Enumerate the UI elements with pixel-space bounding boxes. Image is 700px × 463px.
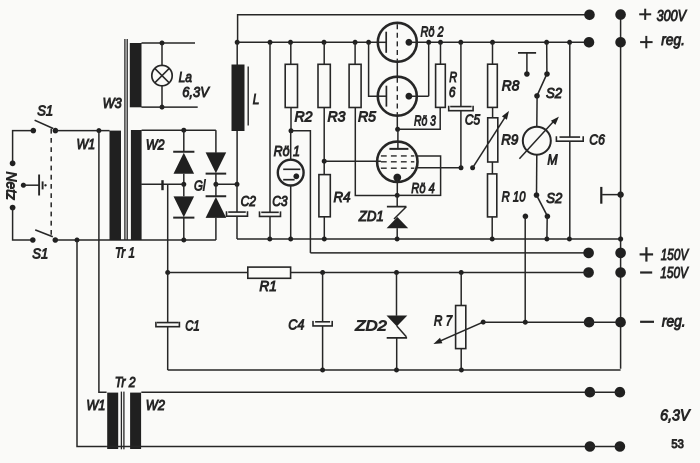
wire 6.3V rail top bbox=[141, 391, 590, 393]
node C6 bottom bbox=[567, 237, 572, 242]
node C6 rail junction bbox=[567, 40, 572, 45]
node Roe3-R6-Roe4 junction bbox=[395, 127, 400, 132]
node S2 throw to -reg bbox=[523, 320, 528, 325]
wire R10 bottom bbox=[491, 217, 493, 239]
panel line bbox=[620, 15, 622, 369]
pot R9 wiper arrow bbox=[473, 111, 509, 168]
label +150V bbox=[640, 245, 690, 263]
label Roe2 bbox=[421, 23, 445, 40]
wire W3 bottom bbox=[142, 106, 198, 108]
label C2 bbox=[241, 193, 257, 210]
node Roe3 grid rail junction bbox=[366, 40, 371, 45]
wire rail +150V bbox=[310, 252, 588, 254]
node R5 rail junction bbox=[353, 40, 358, 45]
label C5 bbox=[465, 111, 481, 128]
wire L bottom bbox=[236, 131, 238, 184]
switch S2 bottom left throw bbox=[523, 214, 529, 220]
S1 coupling dashed line bbox=[50, 129, 52, 237]
node R2 bottom junction bbox=[289, 128, 294, 133]
switch S1 upper lever bbox=[35, 120, 54, 128]
wire W2 top to bridge bbox=[142, 129, 216, 131]
node common rail panel bbox=[618, 236, 623, 241]
diode Gl top-right bbox=[206, 152, 227, 184]
label ZD1 bbox=[358, 207, 384, 224]
node L top junction bbox=[235, 40, 240, 45]
svg-text:R1: R1 bbox=[259, 279, 276, 296]
wire S2 left throw down bbox=[524, 216, 526, 322]
switch S1 lower lever bbox=[35, 230, 53, 237]
switch S1 lower contact left bbox=[30, 237, 36, 243]
terminal stub above S2 bbox=[518, 53, 536, 77]
label W2 Tr2 bbox=[146, 396, 165, 413]
node W1 top junction bbox=[96, 128, 101, 133]
wire Tr2 primary bottom feed bbox=[77, 240, 107, 447]
resistor R8 bbox=[488, 64, 498, 107]
resistor R2 bbox=[285, 64, 297, 107]
switch S1 lower contact right bbox=[53, 237, 59, 243]
wire Roe3 anode up bbox=[428, 42, 430, 96]
switch S2 bottom contact upper bbox=[534, 192, 540, 198]
svg-text:Netz: Netz bbox=[2, 172, 19, 201]
svg-text:M: M bbox=[547, 151, 558, 167]
wire Roe4 screen loop bbox=[397, 156, 440, 195]
terminal -reg bbox=[584, 317, 626, 328]
label S2 top bbox=[546, 84, 562, 101]
label R3 bbox=[328, 109, 346, 125]
svg-text:C1: C1 bbox=[185, 317, 199, 334]
terminal 6.3V bottom bbox=[585, 441, 626, 452]
resistor R9 bbox=[488, 118, 498, 162]
svg-text:R 10: R 10 bbox=[502, 188, 526, 205]
wire Roe4 anode side bbox=[417, 167, 461, 169]
node R7 wiper bbox=[481, 320, 486, 325]
diode Gl top-left bbox=[173, 152, 194, 185]
label R7 bbox=[434, 312, 453, 329]
node lamp bottom bbox=[160, 105, 165, 110]
zener ZD2 bbox=[387, 273, 408, 371]
node R2 rail junction bbox=[288, 40, 293, 45]
tube Roe4 cathode bbox=[393, 174, 401, 196]
wire R7 bottom bbox=[460, 349, 462, 370]
wire R9-R10 link bbox=[491, 162, 493, 174]
label Roe4 bbox=[411, 179, 434, 196]
svg-text:C2: C2 bbox=[241, 193, 257, 210]
tube Roe1 bbox=[278, 160, 304, 186]
label R2 bbox=[295, 109, 313, 125]
svg-text:Rö 3: Rö 3 bbox=[414, 111, 437, 128]
svg-text:C6: C6 bbox=[589, 131, 605, 147]
node C5 bottom junction bbox=[459, 165, 464, 170]
label -reg bbox=[640, 312, 685, 330]
wire R4 bottom bbox=[323, 217, 325, 239]
node R8 rail junction bbox=[490, 40, 495, 45]
svg-text:W1: W1 bbox=[86, 396, 105, 413]
wire S2 bottom to rail bbox=[546, 216, 548, 239]
mains plug symbol bbox=[21, 175, 47, 196]
lamp La bbox=[152, 65, 172, 85]
svg-text:C3: C3 bbox=[272, 193, 288, 210]
label Gl bbox=[194, 177, 206, 194]
label W1 Tr2 bbox=[86, 396, 105, 413]
svg-text:W1: W1 bbox=[77, 136, 96, 152]
label S2 bottom bbox=[546, 189, 562, 206]
label M bbox=[547, 151, 558, 167]
svg-text:ZD1: ZD1 bbox=[358, 207, 384, 224]
node R6 rail junction bbox=[438, 40, 443, 45]
tube Roe4 anode bbox=[389, 129, 408, 149]
label C1 bbox=[185, 317, 199, 334]
svg-text:C5: C5 bbox=[465, 111, 481, 128]
wire Roe1 bottom bbox=[290, 186, 292, 240]
wire rail +raw bbox=[237, 41, 378, 43]
label Roe1 bbox=[274, 143, 300, 159]
wire R6 stem bbox=[440, 42, 442, 64]
svg-text:W2: W2 bbox=[146, 136, 165, 152]
wire lamp stem top bbox=[161, 43, 163, 66]
svg-text:ZD2: ZD2 bbox=[354, 318, 387, 334]
capacitor C3 bbox=[260, 42, 281, 239]
wire Roe3 grid bbox=[369, 42, 378, 96]
node R3 rail junction bbox=[322, 40, 327, 45]
tube Roe4 grids dashed bbox=[381, 156, 414, 168]
node Roe4 cathode junction bbox=[395, 193, 400, 198]
svg-text:W3: W3 bbox=[103, 94, 122, 111]
transformer Tr1 winding W3 bbox=[130, 43, 142, 107]
label W2 bbox=[146, 136, 165, 152]
svg-text:6: 6 bbox=[449, 84, 456, 101]
label W1 bbox=[77, 136, 96, 152]
wire S1 to W1 top bbox=[55, 130, 109, 132]
svg-text:R5: R5 bbox=[358, 109, 377, 125]
node ZD2 top bbox=[394, 270, 399, 275]
svg-text:6,3V: 6,3V bbox=[182, 83, 210, 100]
terminal 6.3V top bbox=[585, 387, 626, 398]
wire R7 stem bbox=[460, 273, 462, 306]
label Tr1 bbox=[115, 244, 135, 261]
node C2 top junction bbox=[235, 182, 240, 187]
svg-text:R 7: R 7 bbox=[434, 312, 453, 329]
switch S2 top lever bbox=[538, 75, 547, 94]
tube Roe3 anode bbox=[406, 93, 429, 100]
svg-text:150V: 150V bbox=[660, 263, 689, 281]
switch S2 bottom lever bbox=[537, 197, 546, 215]
wire R3 stem bbox=[323, 42, 325, 64]
capacitor C1 bbox=[156, 273, 180, 371]
diode Gl bottom-right bbox=[206, 184, 227, 240]
label Netz bbox=[2, 172, 19, 201]
wire rail +reg bbox=[417, 41, 589, 43]
svg-text:S1: S1 bbox=[32, 245, 48, 262]
svg-text:R2: R2 bbox=[295, 109, 313, 125]
node R3-R4 junction bbox=[322, 159, 327, 164]
switch S1 upper contact right bbox=[53, 128, 59, 134]
tap terminal bar bbox=[161, 180, 163, 190]
wire R5 bottom bbox=[355, 108, 397, 196]
capacitor C5 bbox=[449, 42, 473, 168]
svg-text:R9: R9 bbox=[501, 132, 518, 149]
wire bridge mid-right to C2 bbox=[216, 183, 237, 185]
label +reg bbox=[640, 32, 685, 49]
wire W3 top bbox=[142, 42, 196, 44]
pot R7 wiper arrow bbox=[433, 322, 483, 344]
svg-text:S1: S1 bbox=[37, 102, 53, 119]
wire R2 bottom bbox=[290, 108, 292, 131]
node ZD2 bottom bbox=[394, 368, 399, 373]
node mains rail to Tr2 bbox=[75, 238, 80, 243]
switch S2 top contact lower bbox=[534, 93, 540, 99]
zener ZD1 bbox=[387, 195, 409, 239]
terminal +300V bbox=[584, 9, 626, 20]
wire bridge right column top bbox=[215, 130, 217, 152]
label R8 bbox=[502, 78, 520, 95]
label R10 bbox=[502, 188, 526, 205]
svg-text:150V: 150V bbox=[661, 245, 690, 263]
node C4 bottom bbox=[320, 368, 325, 373]
node R7 top bbox=[459, 270, 464, 275]
wire S2 to meter bbox=[536, 96, 538, 127]
node bridge mid-left bbox=[181, 182, 186, 187]
wire rail E bbox=[168, 369, 621, 371]
svg-text:Tr 2: Tr 2 bbox=[115, 374, 136, 390]
svg-text:Rö 4: Rö 4 bbox=[411, 179, 434, 196]
tube Roe2 envelope bbox=[378, 23, 417, 62]
svg-text:R4: R4 bbox=[334, 189, 351, 206]
terminal +150V bbox=[583, 248, 626, 259]
diode Gl bottom-left bbox=[173, 184, 194, 240]
svg-text:reg.: reg. bbox=[661, 32, 685, 49]
wire Roe3 bottom bbox=[396, 114, 398, 129]
node lamp top bbox=[160, 41, 165, 46]
capacitor C4 bbox=[313, 273, 332, 371]
svg-text:S2: S2 bbox=[546, 84, 562, 101]
transformer Tr2 winding W2 bbox=[130, 393, 141, 449]
label R4 bbox=[334, 189, 351, 206]
wire common rail bbox=[237, 238, 621, 240]
label Roe3 bbox=[414, 111, 437, 128]
tube Roe3 envelope bbox=[378, 77, 417, 116]
node S2 bottom rail bbox=[544, 237, 549, 242]
svg-text:6,3V: 6,3V bbox=[660, 407, 691, 425]
label C6 bbox=[589, 131, 605, 147]
node Netz terminal upper bbox=[10, 160, 16, 166]
resistor R1 bbox=[248, 267, 291, 278]
wire mains lower-left bbox=[13, 208, 33, 240]
resistor R3 bbox=[318, 64, 330, 107]
node C3 rail junction bbox=[268, 40, 273, 45]
svg-text:300V: 300V bbox=[657, 8, 688, 26]
node R9 wiper junction bbox=[470, 165, 475, 170]
wire junction to R6 bbox=[398, 107, 441, 129]
transformer Tr1 winding W2 bbox=[131, 130, 142, 240]
node C4 top bbox=[320, 270, 325, 275]
node ZD1 bottom bbox=[395, 237, 400, 242]
wire W2 tap to bridge bbox=[142, 183, 184, 185]
label R6 bbox=[449, 68, 458, 100]
node bridge mid-right bbox=[213, 182, 218, 187]
label 6,3V lamp bbox=[182, 83, 210, 100]
wire rail D left bbox=[168, 272, 248, 274]
label 6,3V output bbox=[660, 407, 691, 425]
wire bridge top-left lead bbox=[183, 130, 185, 151]
switch S1 upper contact left bbox=[31, 128, 37, 134]
wire 6.3V rail bottom bbox=[107, 446, 590, 448]
wire tap down to rail D bbox=[167, 185, 169, 273]
node R7 bottom bbox=[459, 368, 464, 373]
node bridge bottom-left bbox=[181, 238, 186, 243]
resistor R7 bbox=[456, 306, 466, 349]
svg-text:L: L bbox=[253, 90, 260, 107]
node Roe3 anode rail bbox=[426, 40, 431, 45]
svg-text:R3: R3 bbox=[328, 109, 346, 125]
node C5 rail junction bbox=[458, 40, 463, 45]
label S1 upper bbox=[37, 102, 53, 119]
node Netz terminal lower bbox=[10, 205, 16, 211]
label L bbox=[253, 90, 260, 107]
label +300V bbox=[639, 8, 687, 26]
transformer Tr1 winding W1 bbox=[110, 131, 122, 240]
transformer Tr2 core bbox=[121, 392, 124, 450]
wire Roe1 top bbox=[290, 131, 292, 160]
wire R2 stem bbox=[290, 42, 292, 64]
node R4 bottom bbox=[322, 237, 327, 242]
svg-text:53: 53 bbox=[671, 439, 683, 451]
wire top rail +300V bbox=[238, 15, 590, 43]
label La bbox=[179, 69, 193, 86]
wire R3 bottom bbox=[323, 108, 325, 175]
wire R8-R9 link bbox=[492, 107, 494, 117]
wire -reg rail bbox=[483, 321, 589, 323]
node Roe1 bottom bbox=[288, 237, 293, 242]
transformer Tr2 winding W1 bbox=[107, 393, 118, 449]
tube Roe4 envelope bbox=[377, 142, 417, 182]
capacitor C6 bbox=[556, 42, 583, 239]
svg-text:S2: S2 bbox=[546, 189, 562, 206]
svg-text:W2: W2 bbox=[146, 396, 165, 413]
wire R5 stem bbox=[354, 42, 356, 64]
capacitor C2 bbox=[227, 184, 248, 239]
tube Roe2 grid bbox=[378, 32, 386, 53]
wire mains upper-left bbox=[13, 131, 34, 164]
tube Roe2 cathode dashed bbox=[396, 24, 398, 60]
svg-text:reg.: reg. bbox=[662, 312, 686, 330]
label C3 bbox=[272, 193, 288, 210]
svg-text:C4: C4 bbox=[288, 315, 304, 332]
label R9 bbox=[501, 132, 518, 149]
svg-text:Rö 2: Rö 2 bbox=[421, 23, 445, 40]
label ZD2 bbox=[354, 318, 387, 334]
resistor R6 bbox=[436, 64, 446, 107]
tube Roe3 grid bbox=[378, 86, 386, 107]
wire rail D right bbox=[291, 272, 589, 274]
wire mains rail bottom bbox=[55, 239, 216, 241]
meter M bbox=[519, 117, 559, 159]
node R10 bottom bbox=[490, 237, 495, 242]
tube Roe2 anode bbox=[406, 39, 417, 46]
inductor L bbox=[232, 42, 249, 131]
wire meter to S2 bottom bbox=[536, 155, 538, 195]
wire lamp stem bottom bbox=[161, 86, 163, 107]
wire Roe2-Roe3 link bbox=[396, 60, 398, 77]
wire R8 stem bbox=[492, 42, 494, 64]
label W3 bbox=[103, 94, 122, 111]
svg-text:Tr 1: Tr 1 bbox=[115, 244, 135, 261]
switch S2 top contact upper bbox=[544, 71, 550, 77]
label S1 lower bbox=[32, 245, 48, 262]
label R5 bbox=[358, 109, 377, 125]
terminal +reg bbox=[584, 37, 626, 48]
label page 53 bbox=[671, 439, 683, 451]
switch S2 bottom contact lower bbox=[545, 214, 551, 220]
svg-text:R8: R8 bbox=[502, 78, 520, 95]
resistor R5 bbox=[349, 64, 361, 107]
wire Tr2 primary top feed bbox=[99, 131, 107, 393]
wire S2 top stem bbox=[546, 42, 548, 74]
wire grid Roe4 bbox=[324, 160, 381, 162]
chassis terminal bbox=[600, 187, 624, 204]
transformer Tr1 core bbox=[125, 39, 127, 240]
terminal -150V bbox=[583, 267, 626, 278]
svg-text:Rö 1: Rö 1 bbox=[274, 143, 300, 159]
label C4 bbox=[288, 315, 304, 332]
node rail D left bbox=[165, 270, 170, 275]
label -150V bbox=[640, 263, 689, 281]
wire jog to +150 rail bbox=[291, 131, 310, 253]
label R1 bbox=[259, 279, 276, 296]
node S2 top feed bbox=[544, 40, 549, 45]
tube Roe3 cathode dashed bbox=[396, 78, 398, 115]
node bridge top-left bbox=[181, 128, 186, 133]
svg-text:Gl: Gl bbox=[194, 177, 206, 194]
node C3 bottom bbox=[267, 237, 272, 242]
resistor R4 bbox=[319, 175, 330, 217]
label Tr2 bbox=[115, 374, 136, 390]
resistor R10 bbox=[488, 174, 497, 217]
